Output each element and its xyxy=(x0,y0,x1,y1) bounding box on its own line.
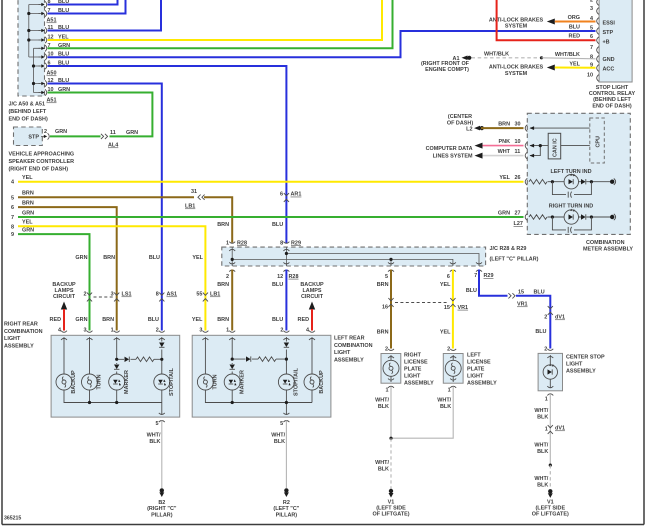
svg-text:ASSEMBLY: ASSEMBLY xyxy=(334,357,364,363)
svg-text:SYSTEM: SYSTEM xyxy=(505,24,528,30)
pin 3 left rear xyxy=(202,331,208,340)
svg-text:END OF DASH): END OF DASH) xyxy=(9,117,48,123)
relay pin 3 xyxy=(597,8,599,15)
wire BLU pin7 A51 up xyxy=(48,0,126,14)
svg-text:BLK: BLK xyxy=(440,404,451,410)
lamp STOP/TAIL right rear xyxy=(154,374,170,390)
svg-text:(BEHIND LEFT: (BEHIND LEFT xyxy=(593,97,631,103)
svg-text:GND: GND xyxy=(603,57,615,63)
svg-text:A51: A51 xyxy=(47,98,57,104)
svg-text:16: 16 xyxy=(382,305,388,311)
svg-text:L2: L2 xyxy=(466,127,472,133)
center stop light assembly box xyxy=(538,353,562,390)
connector 15 VR1 on YEL xyxy=(450,298,455,307)
dashed link LS1 xyxy=(94,296,114,298)
right turn indicator circuit xyxy=(529,209,616,233)
bus1 junction dots xyxy=(27,12,30,15)
pin 8 A51 xyxy=(39,1,47,7)
wire GRN pin10 A51 to speaker controller xyxy=(48,93,153,137)
svg-text:4: 4 xyxy=(306,328,309,334)
svg-text:COMBINATION: COMBINATION xyxy=(4,329,43,335)
svg-text:ASSEMBLY: ASSEMBLY xyxy=(404,381,434,387)
internal wiring right rear xyxy=(64,337,162,415)
svg-text:YEL: YEL xyxy=(499,175,510,181)
ground R2 xyxy=(284,488,289,497)
svg-text:COMPUTER DATA: COMPUTER DATA xyxy=(426,146,473,152)
ground B2 xyxy=(159,488,164,497)
lamp BACKUP right rear xyxy=(56,374,72,390)
J/C A50-A51 internal bus 2 xyxy=(34,48,41,92)
wire BLU pin8 A51 up xyxy=(48,0,118,5)
svg-text:GRN: GRN xyxy=(126,130,138,136)
svg-text:BLU: BLU xyxy=(272,317,283,323)
wire BLU R28 pin12 down to left rear pin2 xyxy=(285,270,287,331)
wire WHT/BLK dashed to ground V1 xyxy=(390,438,392,488)
R29 pin 5 bottom xyxy=(388,262,394,271)
svg-text:LEFT: LEFT xyxy=(467,353,481,359)
svg-text:YEL: YEL xyxy=(192,255,203,261)
diode on stop/tail feed right rear xyxy=(159,343,164,348)
pin 4 left rear xyxy=(309,331,315,340)
pin 10 A50 xyxy=(39,54,47,60)
diode marker branch left rear xyxy=(246,356,251,361)
relay pin 8 GND xyxy=(597,56,599,63)
svg-text:2: 2 xyxy=(385,347,388,353)
J/C R28 & R29 box xyxy=(222,247,486,266)
svg-text:15: 15 xyxy=(444,305,450,311)
lamp right license xyxy=(383,360,399,376)
svg-text:PLATE: PLATE xyxy=(404,367,422,373)
vehicle approaching speaker controller STP box xyxy=(14,127,43,146)
STP pin 2 xyxy=(41,133,49,139)
J/C A50-A51 internal bus 1 xyxy=(29,5,40,58)
backup lamps arrow right rear xyxy=(61,302,67,310)
svg-text:1: 1 xyxy=(111,328,114,334)
wire YEL pin12 A51 up xyxy=(48,0,383,40)
svg-text:1: 1 xyxy=(545,397,548,403)
svg-text:2: 2 xyxy=(226,274,229,280)
pin 4 right rear xyxy=(61,331,67,340)
svg-text:WHT/: WHT/ xyxy=(375,460,389,466)
right license plate light assembly box xyxy=(381,354,401,384)
svg-text:GRN: GRN xyxy=(75,255,87,261)
wire BRN R29 pin5 down to right license xyxy=(390,270,392,349)
svg-text:BACKUP: BACKUP xyxy=(71,370,77,394)
svg-text:END OF DASH): END OF DASH) xyxy=(592,103,631,109)
svg-text:5: 5 xyxy=(385,274,388,280)
svg-text:ACC: ACC xyxy=(603,67,615,73)
diode on stop/tail feed left rear xyxy=(284,343,289,348)
wire WHT/BLK splice to relay pin8 xyxy=(542,58,596,59)
connector 16 on BRN xyxy=(388,298,393,307)
svg-text:WHT/: WHT/ xyxy=(147,433,161,439)
internal line pin30 to CPU xyxy=(530,127,590,129)
pin 3 right rear xyxy=(87,331,93,340)
wire RED backup right rear xyxy=(63,309,65,331)
svg-text:YEL: YEL xyxy=(22,220,33,226)
svg-text:LIGHT: LIGHT xyxy=(4,336,21,342)
svg-text:SPEAKER CONTROLLER: SPEAKER CONTROLLER xyxy=(9,159,75,165)
wire YEL R29 pin6 down to left license xyxy=(452,270,454,349)
wire YEL to relay pin9 xyxy=(555,67,596,69)
svg-text:2: 2 xyxy=(544,347,547,353)
connector 15 VR1 horizontal on BLU xyxy=(508,293,515,298)
svg-text:BRN: BRN xyxy=(377,282,389,288)
svg-text:(RIGHT "C": (RIGHT "C" xyxy=(147,506,177,512)
svg-text:BACKUP: BACKUP xyxy=(319,370,325,394)
wire BLU pin12 A50 down to right rear light xyxy=(48,84,162,331)
svg-text:BLK: BLK xyxy=(537,415,548,421)
svg-text:CONTROL RELAY: CONTROL RELAY xyxy=(589,91,636,97)
connector 31 LB1 xyxy=(198,195,205,200)
svg-text:ASSEMBLY: ASSEMBLY xyxy=(566,369,596,375)
svg-text:LEFT TURN IND: LEFT TURN IND xyxy=(550,169,591,175)
svg-text:BLU: BLU xyxy=(534,289,545,295)
svg-text:3: 3 xyxy=(111,292,114,298)
right rear combination light assembly box xyxy=(51,335,180,417)
pin 1 left rear xyxy=(229,331,235,340)
junction dot license grounds xyxy=(389,437,392,440)
meter pin 27 xyxy=(525,214,527,221)
svg-text:7: 7 xyxy=(590,45,593,51)
dashed link VR1 xyxy=(395,302,449,304)
svg-text:27: 27 xyxy=(515,211,521,217)
lamp left license xyxy=(445,360,461,376)
svg-text:LS1: LS1 xyxy=(122,292,132,298)
svg-text:AR1: AR1 xyxy=(291,192,302,198)
resistor marker branch left rear xyxy=(258,357,276,362)
junction connector J/C A50 & A51 box xyxy=(18,0,45,96)
pin 2 center stop xyxy=(547,349,553,358)
svg-text:GRN: GRN xyxy=(498,211,510,217)
internal lines pins 10 11 to CAN IC and CPU xyxy=(530,146,590,156)
wire PNK to meter pin10 xyxy=(483,145,524,147)
svg-text:LINES SYSTEM: LINES SYSTEM xyxy=(433,153,473,159)
svg-text:dV1: dV1 xyxy=(555,426,565,432)
svg-text:R28: R28 xyxy=(289,274,299,280)
svg-text:5: 5 xyxy=(280,421,283,427)
svg-text:1: 1 xyxy=(226,240,229,246)
svg-text:STOP/TAIL: STOP/TAIL xyxy=(169,367,175,396)
wire BLU after VR1 to dV1 xyxy=(516,296,550,349)
svg-text:YEL: YEL xyxy=(440,330,451,336)
svg-text:BLK: BLK xyxy=(537,449,548,455)
svg-text:(LEFT "C" PILLAR): (LEFT "C" PILLAR) xyxy=(490,257,539,263)
svg-text:PILLAR): PILLAR) xyxy=(276,513,298,519)
svg-text:5: 5 xyxy=(590,25,593,31)
svg-text:TURN: TURN xyxy=(212,374,218,389)
svg-text:BRN: BRN xyxy=(377,330,389,336)
connector 55 LB1 on YEL xyxy=(203,293,208,302)
svg-text:BRN: BRN xyxy=(217,317,229,323)
svg-text:COMBINATION: COMBINATION xyxy=(586,240,625,246)
relay pin 9 ACC xyxy=(597,65,599,72)
wire WHT/BLK left license to junction xyxy=(391,387,453,439)
relay pin 4 ESSI xyxy=(597,18,599,25)
svg-text:RED: RED xyxy=(569,34,581,40)
junction dots right rear xyxy=(115,358,118,361)
svg-text:LICENSE: LICENSE xyxy=(467,360,491,366)
svg-text:PNK: PNK xyxy=(499,139,511,145)
svg-text:LB1: LB1 xyxy=(210,292,220,298)
svg-text:A50: A50 xyxy=(47,71,57,77)
lamp TURN right rear xyxy=(82,374,98,390)
svg-text:dV1: dV1 xyxy=(555,315,565,321)
svg-text:J/C R28 & R29: J/C R28 & R29 xyxy=(490,246,527,252)
svg-text:3: 3 xyxy=(590,6,593,12)
svg-text:RIGHT REAR: RIGHT REAR xyxy=(4,322,38,328)
connector 8 AS1 on BLU xyxy=(159,293,164,302)
svg-text:GRN: GRN xyxy=(22,228,34,234)
wire BLU R29 pin7 to center stop xyxy=(479,270,508,296)
svg-text:ANTI-LOCK BRAKES: ANTI-LOCK BRAKES xyxy=(489,65,544,71)
svg-text:STOP LIGHT: STOP LIGHT xyxy=(596,85,629,91)
svg-text:2: 2 xyxy=(156,328,159,334)
svg-text:10: 10 xyxy=(587,73,593,79)
svg-text:WHT/: WHT/ xyxy=(375,398,389,404)
svg-text:4: 4 xyxy=(58,328,61,334)
arrow computer data WHT xyxy=(475,153,483,159)
svg-text:RIGHT TURN IND: RIGHT TURN IND xyxy=(549,203,593,209)
svg-text:5: 5 xyxy=(11,195,14,201)
svg-text:ASSEMBLY: ASSEMBLY xyxy=(467,381,497,387)
svg-text:BRN: BRN xyxy=(217,282,229,288)
wire WHT to meter pin11 xyxy=(483,155,524,157)
wire GRN pin7 A50 up xyxy=(48,0,393,48)
left turn indicator circuit xyxy=(529,173,616,197)
svg-text:6: 6 xyxy=(447,274,450,280)
svg-text:2: 2 xyxy=(44,129,47,135)
svg-text:2: 2 xyxy=(590,0,593,4)
ground V1 liftgate xyxy=(389,489,394,498)
wire GRN row9 down to right rear light xyxy=(18,234,90,330)
svg-text:WHT/: WHT/ xyxy=(534,476,548,482)
pin 5 right rear xyxy=(159,413,165,422)
svg-text:YEL: YEL xyxy=(22,175,33,181)
pin 5 left rear xyxy=(283,413,289,422)
svg-text:(CENTER: (CENTER xyxy=(448,114,472,120)
R28 pin 1 top xyxy=(229,242,235,251)
svg-text:CIRCUIT: CIRCUIT xyxy=(53,294,76,300)
svg-text:YEL: YEL xyxy=(569,61,580,67)
svg-text:PLATE: PLATE xyxy=(467,367,485,373)
wire WHT/BLK center stop to connector xyxy=(549,394,551,465)
svg-text:GRN: GRN xyxy=(22,210,34,216)
wire BRN row6 down to right rear light xyxy=(18,207,117,330)
relay pin 10 xyxy=(597,75,599,82)
svg-text:R29: R29 xyxy=(484,273,494,279)
pin 12 A51 xyxy=(39,37,47,43)
arrow computer data PNK xyxy=(475,143,483,149)
lamp MARKER right rear xyxy=(109,374,125,390)
left license plate light assembly box xyxy=(443,354,463,384)
svg-text:OF LIFTGATE): OF LIFTGATE) xyxy=(372,512,409,518)
svg-text:BLK: BLK xyxy=(537,483,548,489)
svg-text:PILLAR): PILLAR) xyxy=(151,513,173,519)
svg-text:1: 1 xyxy=(545,427,548,433)
svg-text:ASSEMBLY: ASSEMBLY xyxy=(4,344,34,350)
svg-text:METER ASSEMBLY: METER ASSEMBLY xyxy=(583,246,633,252)
svg-text:ESSI: ESSI xyxy=(603,21,616,27)
svg-text:YEL: YEL xyxy=(192,317,203,323)
wire RED backup left rear xyxy=(311,309,313,331)
svg-text:BLU: BLU xyxy=(148,317,159,323)
svg-text:2: 2 xyxy=(280,328,283,334)
svg-text:SYSTEM: SYSTEM xyxy=(505,71,528,77)
lamp MARKER left rear xyxy=(224,374,240,390)
pin 11 A51 xyxy=(39,27,47,33)
svg-text:A51: A51 xyxy=(47,18,57,24)
svg-text:55: 55 xyxy=(196,292,202,298)
svg-text:(RIGHT END OF DASH): (RIGHT END OF DASH) xyxy=(9,167,69,173)
wire ORG to relay pin4 xyxy=(555,21,596,23)
ground V1 center stop xyxy=(548,489,553,498)
svg-text:ORG: ORG xyxy=(568,15,580,21)
R28-R29 upper internal bus xyxy=(286,247,479,266)
wire GRN STP pin2 to AL4 xyxy=(50,135,101,137)
R29 pin 8 top xyxy=(283,242,289,251)
svg-text:BLU: BLU xyxy=(466,288,477,294)
svg-text:1: 1 xyxy=(226,328,229,334)
arrow to anti-lock upper xyxy=(547,19,555,25)
meter pin 30 xyxy=(525,125,527,132)
diode marker branch right rear xyxy=(125,357,130,362)
wire BLU pin11 A51 up xyxy=(48,0,162,31)
CPU dashed box xyxy=(590,118,605,163)
junction dots left rear xyxy=(231,358,234,361)
svg-text:RED: RED xyxy=(298,317,310,323)
border frame right xyxy=(643,0,645,525)
svg-text:BLU: BLU xyxy=(535,329,546,335)
connector 2 (LS1) on GRN xyxy=(87,293,92,302)
svg-text:L27: L27 xyxy=(514,221,523,227)
svg-text:WHT/: WHT/ xyxy=(534,408,548,414)
stop light control relay box xyxy=(599,0,632,82)
wire BLU pin10 A50 to relay STP xyxy=(48,31,596,57)
svg-text:BLU: BLU xyxy=(569,25,580,31)
border frame left xyxy=(1,0,3,525)
R28-R29 lower internal bus xyxy=(232,247,453,266)
wire BLU pin6 A50 down to R29 xyxy=(48,66,287,243)
svg-text:11: 11 xyxy=(515,149,521,155)
svg-text:BLU: BLU xyxy=(272,222,283,228)
svg-text:R28: R28 xyxy=(237,240,247,246)
border frame bottom xyxy=(2,524,644,526)
svg-text:STP: STP xyxy=(603,30,614,36)
left rear combination light assembly box xyxy=(192,335,331,417)
pin 7 A51 xyxy=(39,10,47,16)
svg-text:CIRCUIT: CIRCUIT xyxy=(301,294,324,300)
wire YEL row8 down to left rear light xyxy=(18,226,205,330)
diode on marker feed left rear xyxy=(230,365,235,370)
svg-text:BRN: BRN xyxy=(22,201,34,207)
wire BRN L2 to meter pin30 xyxy=(481,127,524,129)
svg-text:LIGHT: LIGHT xyxy=(467,374,484,380)
svg-text:BLK: BLK xyxy=(274,439,285,445)
internal wiring left rear xyxy=(205,337,312,415)
svg-text:MARKER: MARKER xyxy=(240,370,246,394)
svg-text:ENGINE COMPT): ENGINE COMPT) xyxy=(425,67,469,73)
svg-text:7: 7 xyxy=(474,273,477,279)
lamp BACKUP left rear xyxy=(304,374,320,390)
relay pin 5 STP xyxy=(597,28,599,35)
svg-text:2: 2 xyxy=(447,347,450,353)
bus dots xyxy=(285,252,288,255)
svg-text:2: 2 xyxy=(544,315,547,321)
relay pin 2 xyxy=(597,0,599,5)
svg-text:BLK: BLK xyxy=(378,404,389,410)
svg-text:WHT/BLK: WHT/BLK xyxy=(484,51,509,57)
svg-text:RIGHT: RIGHT xyxy=(404,353,422,359)
svg-text:(LEFT "C": (LEFT "C" xyxy=(273,506,299,512)
svg-text:1: 1 xyxy=(448,388,451,394)
svg-text:8: 8 xyxy=(156,292,159,298)
svg-text:OF DASH): OF DASH) xyxy=(447,120,473,126)
svg-text:MARKER: MARKER xyxy=(124,370,130,394)
svg-text:BLK: BLK xyxy=(149,439,160,445)
svg-text:8: 8 xyxy=(11,224,14,230)
connector 2 dV1 on BLU xyxy=(548,306,553,315)
svg-text:3: 3 xyxy=(199,328,202,334)
svg-text:9: 9 xyxy=(11,232,14,238)
svg-text:WHT/: WHT/ xyxy=(534,443,548,449)
svg-text:LICENSE: LICENSE xyxy=(404,360,428,366)
svg-text:BRN: BRN xyxy=(22,191,34,197)
svg-text:YEL: YEL xyxy=(440,282,451,288)
CAN IC box xyxy=(548,133,561,159)
svg-text:VEHICLE APPROACHING: VEHICLE APPROACHING xyxy=(9,152,75,158)
R28 pin 12 bottom xyxy=(283,262,289,271)
pin 1 right license xyxy=(388,379,394,388)
resistor marker branch right rear xyxy=(136,357,154,362)
svg-text:CPU: CPU xyxy=(596,136,602,148)
svg-text:VR1: VR1 xyxy=(517,302,528,308)
pin 2 left rear xyxy=(283,331,289,340)
wire WHT/BLK right license down xyxy=(390,387,392,439)
svg-text:31: 31 xyxy=(191,189,197,195)
lamp TURN left rear xyxy=(197,374,213,390)
junction dot center stop ground xyxy=(549,464,552,467)
wire WHT/BLK dashed to ground V1 center xyxy=(549,465,551,488)
svg-text:BRN: BRN xyxy=(498,122,510,128)
svg-text:GRN: GRN xyxy=(75,317,87,323)
connector 11 AL4 xyxy=(101,134,108,139)
wire WHT/BLK right rear to ground xyxy=(161,421,163,489)
connector 1 dV1 lower xyxy=(548,425,553,434)
svg-text:CAN IC: CAN IC xyxy=(553,138,559,157)
pin 7 A50 xyxy=(39,45,47,51)
svg-text:365215: 365215 xyxy=(4,516,21,522)
svg-text:BLU: BLU xyxy=(272,282,283,288)
wire GRN row7 to meter pin27 xyxy=(18,216,524,218)
svg-text:LIGHT: LIGHT xyxy=(404,374,421,380)
R28 pin 2 bottom xyxy=(229,262,235,271)
svg-text:AS1: AS1 xyxy=(167,292,178,298)
pin 6 A50 xyxy=(39,63,47,69)
svg-text:VR1: VR1 xyxy=(458,305,469,311)
svg-text:30: 30 xyxy=(515,122,521,128)
svg-text:WHT/: WHT/ xyxy=(271,433,285,439)
svg-text:26: 26 xyxy=(515,175,521,181)
svg-text:GRN: GRN xyxy=(55,129,67,135)
svg-text:OF LIFTGATE): OF LIFTGATE) xyxy=(532,512,569,518)
svg-text:WHT: WHT xyxy=(498,149,511,155)
pin 2 right rear xyxy=(159,331,165,340)
svg-text:RED: RED xyxy=(50,317,62,323)
wire BRN row5 down to R28 pin1 xyxy=(204,197,232,243)
R29 pin 7 bottom xyxy=(476,262,482,271)
svg-text:1: 1 xyxy=(385,388,388,394)
